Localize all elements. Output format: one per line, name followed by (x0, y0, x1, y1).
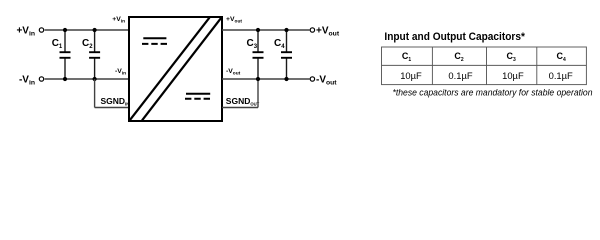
svg-text:C1: C1 (52, 38, 63, 50)
svg-text:C2: C2 (82, 38, 93, 50)
svg-text:C3: C3 (247, 38, 258, 50)
wire SGND in horizontal (95, 107, 129, 109)
wire C1 leads (64, 30, 66, 52)
svg-text:-Vout: -Vout (226, 68, 241, 76)
svg-text:+Vin: +Vin (112, 16, 125, 24)
junction dot C4 bottom (284, 77, 288, 81)
junction dot C4 top (284, 28, 288, 32)
capacitor C4 (274, 38, 292, 58)
capacitor C1 (52, 38, 71, 58)
capacitor C2 (82, 38, 100, 58)
svg-text:10µF: 10µF (400, 70, 422, 81)
svg-text:-Vout: -Vout (316, 75, 337, 87)
junction dot C3 top (256, 28, 260, 32)
svg-text:C4: C4 (556, 51, 566, 63)
wire +Vin top rail (45, 29, 129, 31)
svg-text:SGNDIN: SGNDIN (101, 96, 130, 107)
svg-text:C2: C2 (454, 51, 464, 63)
terminal -Vin (39, 77, 43, 81)
terminal -Vout (310, 77, 314, 81)
svg-text:+Vout: +Vout (226, 16, 242, 24)
converter diagonal double line (130, 18, 210, 121)
table frame (382, 47, 587, 85)
wire C4 leads (286, 30, 288, 52)
converter U1 box (129, 17, 222, 121)
svg-text:C3: C3 (507, 51, 517, 63)
svg-text:0.1µF: 0.1µF (549, 70, 573, 81)
svg-text:Input and Output Capacitors*: Input and Output Capacitors* (384, 31, 525, 43)
wire -Vin bottom rail (45, 78, 129, 80)
svg-text:SGNDOUT: SGNDOUT (226, 96, 260, 107)
svg-text:C1: C1 (402, 51, 412, 63)
DC symbol output side (185, 94, 210, 99)
svg-text:+Vin: +Vin (16, 26, 35, 38)
terminal +Vin (39, 28, 43, 32)
junction dot C2 top (93, 28, 97, 32)
wire +Vout top rail (222, 29, 310, 31)
svg-text:*these capacitors are mandator: *these capacitors are mandatory for stab… (393, 88, 593, 98)
svg-text:0.1µF: 0.1µF (448, 70, 472, 81)
wire SGND out rise (257, 79, 259, 108)
svg-text:10µF: 10µF (502, 70, 524, 81)
svg-text:-Vin: -Vin (19, 75, 35, 87)
terminal +Vout (310, 28, 314, 32)
junction dot C1 bottom (63, 77, 67, 81)
junction dot C1 top (63, 28, 67, 32)
wire -Vout bottom rail (222, 78, 310, 80)
capacitor C3 (247, 38, 264, 58)
DC symbol input side (142, 38, 167, 44)
wire SGND in drop (94, 79, 96, 108)
junction dot C2 bottom (93, 77, 97, 81)
wire SGND out horizontal (222, 107, 258, 109)
svg-text:-Vin: -Vin (115, 68, 126, 76)
junction dot C3 bottom (256, 77, 260, 81)
svg-text:+Vout: +Vout (316, 26, 340, 38)
svg-text:C4: C4 (274, 38, 285, 50)
wire C3 leads (257, 30, 259, 52)
wire C2 leads (94, 30, 96, 52)
